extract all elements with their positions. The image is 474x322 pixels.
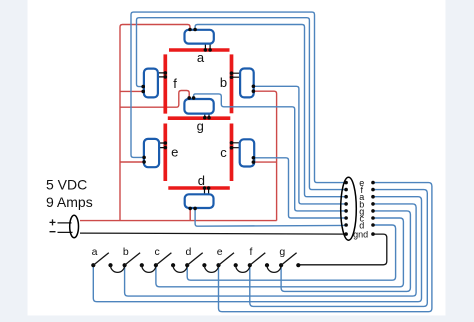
LED module for segment b [230, 69, 256, 98]
wire blue pin d to switch d [187, 225, 395, 280]
wire blue LED a to connector pin a [195, 25, 346, 197]
switch common hop e-f [236, 265, 250, 272]
switch e [216, 253, 237, 268]
svg-text:a: a [92, 246, 98, 258]
wire blue LED b to connector pin b [253, 86, 346, 204]
segment c [230, 124, 234, 182]
segment g [168, 116, 231, 120]
switch common hop a-b [111, 265, 125, 272]
switch b [123, 253, 144, 268]
wire red branch to LED g [120, 91, 189, 108]
svg-text:d: d [185, 246, 191, 258]
svg-text:c: c [220, 145, 227, 160]
svg-text:g: g [279, 246, 285, 258]
switch f [248, 253, 269, 268]
wire ground from power supply to connector gnd pin [80, 233, 346, 234]
wire blue LED e to connector pin e [131, 12, 346, 183]
wire blue pin a to switch a [93, 197, 421, 302]
svg-text:9 Amps: 9 Amps [46, 194, 93, 210]
wire +5V bus from power supply [80, 220, 277, 222]
wire blue LED f to connector pin f [137, 18, 347, 190]
segment f [163, 54, 167, 113]
switch common hop b-c [142, 265, 156, 272]
segment a [169, 48, 230, 52]
LED module for segment c [230, 139, 256, 166]
svg-text:b: b [123, 246, 129, 258]
segment b [230, 54, 234, 113]
svg-text:d: d [198, 173, 205, 188]
wire blue pin c to switch c [156, 218, 404, 287]
power supply connector ellipse [70, 215, 79, 237]
switch c [154, 253, 175, 268]
svg-text:b: b [220, 75, 227, 90]
svg-text:a: a [197, 50, 205, 65]
wire blue LED g to connector pin g [194, 94, 347, 211]
wire red drop from LED d [189, 209, 191, 221]
wire blue pin g to switch g [281, 211, 410, 292]
power supply plus terminal [50, 219, 72, 225]
LED module for segment f [141, 69, 167, 98]
switch d [185, 253, 206, 268]
LED module for segment e [142, 139, 167, 167]
wire red branch to LED c [253, 161, 276, 163]
svg-text:f: f [173, 76, 177, 91]
switch a [91, 253, 112, 268]
wire blue pin f to switch f [250, 190, 427, 307]
connector J1 ellipse [341, 177, 357, 240]
svg-text:g: g [197, 118, 204, 133]
connector left pins [344, 181, 348, 236]
svg-text:5 VDC: 5 VDC [46, 177, 87, 193]
power supply minus terminal [50, 231, 73, 234]
switch g [279, 253, 300, 268]
wire ground from connector to switch common [298, 234, 387, 265]
segment e [163, 124, 167, 182]
LED module for segment g [184, 96, 213, 119]
switch labels [92, 246, 286, 258]
svg-text:gnd: gnd [353, 230, 368, 240]
switch common hop c-d [173, 265, 187, 272]
svg-text:e: e [217, 246, 223, 258]
segment d [168, 186, 230, 190]
svg-text:e: e [171, 144, 178, 159]
switch common hop f-g [267, 265, 281, 272]
wire red left bus riser to LED a [120, 25, 190, 221]
wire red branch to LED f [120, 90, 143, 92]
LED module for segment d [185, 186, 214, 210]
connector right pins [371, 181, 375, 236]
wire red branch to LED e [120, 161, 144, 163]
wire red right riser to LED b [253, 91, 276, 220]
wire blue LED d to connector pin d [195, 208, 346, 226]
LED module for segment a [185, 28, 214, 52]
connector pin labels [353, 178, 368, 240]
wire blue pin b to switch b [125, 204, 417, 296]
wire blue LED c to connector pin c [253, 158, 346, 218]
wire blue pin e to switch e [219, 183, 432, 312]
svg-text:c: c [154, 246, 159, 258]
switch common hop d-e [204, 265, 218, 272]
svg-text:f: f [250, 246, 253, 258]
